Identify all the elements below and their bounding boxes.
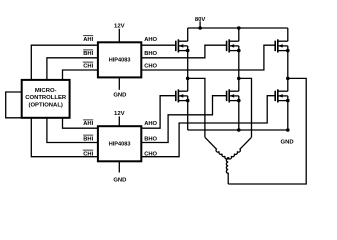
svg-text:AHO: AHO <box>144 37 157 43</box>
wire: MCU to U1 AHI <box>31 45 98 80</box>
wire: MCU to U2 CHI <box>31 118 98 157</box>
svg-text:GND: GND <box>113 92 126 98</box>
wire: U2 12V pin <box>118 116 120 126</box>
wire: 80V bus rail <box>188 27 288 29</box>
svg-text:GND: GND <box>113 177 126 183</box>
wire: MCU to U1 BHI <box>47 58 98 80</box>
svg-text:BHI: BHI <box>83 136 93 142</box>
ground GND (power stage) <box>281 140 294 146</box>
inductor motor winding phase C <box>226 158 228 184</box>
node phase A tap junction <box>186 77 190 81</box>
transistor Q5 (N-channel MOSFET) <box>227 89 241 102</box>
pin label CHO U2 <box>144 151 157 157</box>
svg-text:BHO: BHO <box>144 136 157 142</box>
pin label BHI U2 (active low) <box>83 135 93 142</box>
pin label BHI U1 (active low) <box>83 50 93 57</box>
wire: Q6 source to GND rail <box>287 101 289 130</box>
pin label BHO U1 <box>144 51 157 57</box>
transistor Q2 (N-channel MOSFET) <box>227 39 241 52</box>
wire: phase B node vertical <box>238 51 240 92</box>
wire: phase A tap to motor <box>188 78 205 137</box>
transistor Q4 (N-channel MOSFET) <box>176 89 190 102</box>
wire: Q2 drain riser <box>238 28 240 41</box>
wire: phase C node vertical <box>287 51 289 92</box>
svg-text:CHO: CHO <box>144 63 157 69</box>
inductor motor winding phase B <box>228 137 251 159</box>
wire: U1 AHO to Q1 gate <box>141 44 176 46</box>
wire: 80V stub <box>199 21 201 28</box>
transistor Q6 (N-channel MOSFET) <box>275 89 289 102</box>
node phase B tap junction <box>237 77 241 81</box>
gate driver U2 HIP4083 (bottom) <box>98 126 141 161</box>
node GND rail terminal <box>286 128 290 132</box>
wire: U2 AHO to Q4 gate <box>141 96 176 129</box>
svg-text:12V: 12V <box>114 111 125 117</box>
pin label AHO U1 <box>144 37 157 43</box>
wire: phase C tap to motor <box>228 78 306 184</box>
svg-text:HIP4083: HIP4083 <box>109 142 131 148</box>
node phase C tap junction <box>286 77 290 81</box>
wire: phase A node vertical <box>187 51 189 92</box>
node Q2 drain junction <box>237 26 241 30</box>
inductor motor winding phase A <box>205 137 228 159</box>
svg-text:AHO: AHO <box>144 121 157 127</box>
transistor Q1 (N-channel MOSFET) <box>176 39 190 52</box>
pin label BHO U2 <box>144 136 157 142</box>
svg-text:BHO: BHO <box>144 51 157 57</box>
svg-text:MICRO-: MICRO- <box>35 88 57 94</box>
wire: MCU to U2 BHI <box>47 118 98 143</box>
svg-text:AHI: AHI <box>83 121 93 127</box>
pin label CHI U2 (active low) <box>83 150 94 157</box>
wire: MCU to U2 AHI <box>63 118 98 128</box>
wire: U2 BHO to Q5 gate <box>141 96 226 143</box>
wire: phase B tap to motor <box>239 78 252 137</box>
node motor star point <box>227 157 230 160</box>
wire: Q3 drain riser <box>287 28 289 41</box>
wire: U2 GND pin <box>118 161 120 172</box>
pin label AHO U2 <box>144 121 157 127</box>
ground GND U1 <box>113 92 126 98</box>
label 80V supply <box>195 17 206 23</box>
node Q5 source-rail junction <box>237 128 241 132</box>
svg-text:(OPTIONAL): (OPTIONAL) <box>29 102 63 108</box>
wire: MCU left-side pin loop <box>6 92 22 118</box>
wire: Q5 source to GND rail <box>238 101 240 130</box>
svg-text:AHI: AHI <box>83 37 93 43</box>
pin label CHO U1 <box>144 63 157 69</box>
wire: U1 GND pin <box>118 77 120 89</box>
wire: U1 12V pin <box>118 29 120 43</box>
microcontroller U3 (optional) <box>22 80 70 118</box>
svg-text:CONTROLLER: CONTROLLER <box>25 95 67 101</box>
wire: U2 CHO to Q6 gate <box>141 96 275 157</box>
pin label AHI U1 (active low) <box>83 36 93 43</box>
wire: Q4 source to GND rail <box>187 101 189 130</box>
wire: U1 BHO to Q2 gate <box>141 45 226 58</box>
pin label CHI U1 (active low) <box>83 62 94 69</box>
svg-text:CHI: CHI <box>83 63 93 69</box>
wire: Q1 drain riser <box>187 28 189 41</box>
ground GND U2 <box>113 177 126 183</box>
node 80V junction <box>198 26 202 30</box>
wire: MCU to U1 CHI <box>63 70 98 80</box>
svg-text:HIP4083: HIP4083 <box>109 58 131 64</box>
wire: GND return rail <box>188 129 288 131</box>
svg-text:GND: GND <box>281 140 294 146</box>
wire: U1 CHO to Q3 gate <box>141 45 275 70</box>
transistor Q3 (N-channel MOSFET) <box>275 39 289 52</box>
pin label AHI U2 (active low) <box>83 120 93 127</box>
svg-text:BHI: BHI <box>83 51 93 57</box>
gate driver U1 HIP4083 (top) <box>98 42 141 77</box>
label 12V supply U1 <box>114 24 125 30</box>
label 12V supply U2 <box>114 111 125 117</box>
